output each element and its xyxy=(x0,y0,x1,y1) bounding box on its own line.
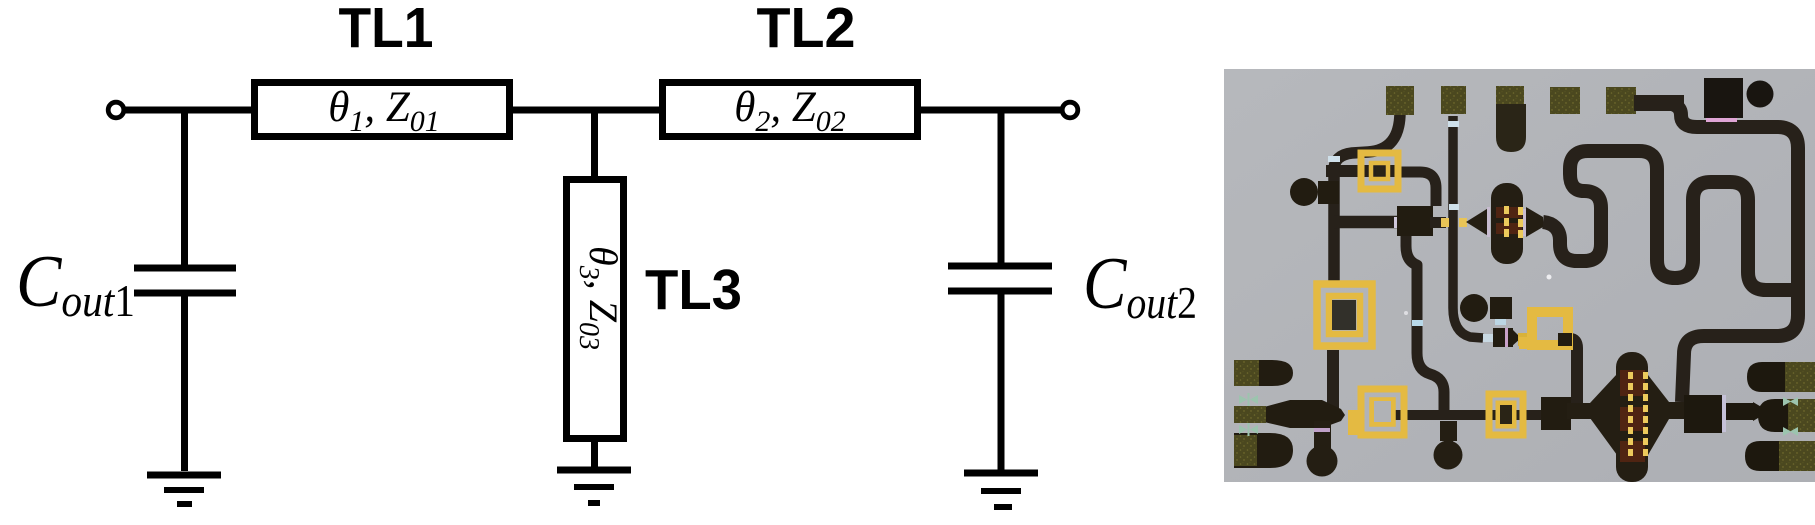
svg-text:TL2: TL2 xyxy=(757,0,856,60)
svg-text:TL3: TL3 xyxy=(645,258,742,322)
svg-text:Cout1: Cout1 xyxy=(16,241,135,326)
svg-text:TL1: TL1 xyxy=(339,0,434,60)
svg-text:Cout2: Cout2 xyxy=(1083,243,1197,328)
